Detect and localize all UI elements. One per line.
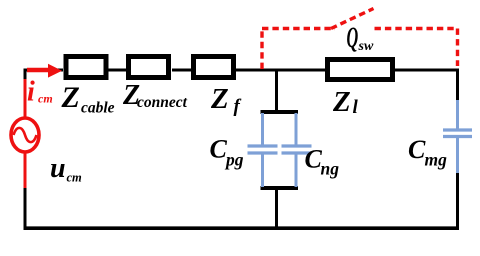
label Z_l xyxy=(332,86,359,118)
svg-text:u: u xyxy=(50,153,66,184)
svg-text:Z: Z xyxy=(332,86,351,118)
wire: capacitor bottom bar xyxy=(261,186,299,190)
svg-text:Q: Q xyxy=(347,22,359,54)
switch Q_sw dashed red: left vertical drop to node xyxy=(260,29,263,70)
resistor box Z_cable xyxy=(66,57,106,78)
capacitor C_ng plates xyxy=(282,146,312,153)
capacitor C_ng lead bottom xyxy=(295,155,298,188)
wire: right vertical black bottom segment xyxy=(456,172,459,230)
svg-text:i: i xyxy=(27,77,35,108)
label i_cm xyxy=(27,77,53,108)
switch dashed red: right vertical drop xyxy=(456,29,459,67)
svg-text:C: C xyxy=(408,135,426,164)
svg-text:mg: mg xyxy=(425,150,448,170)
label u_cm xyxy=(50,153,82,185)
svg-text:cm: cm xyxy=(38,92,53,106)
svg-text:ng: ng xyxy=(321,159,340,179)
label C_pg xyxy=(210,135,244,170)
capacitor C_pg plates xyxy=(248,146,278,153)
wire: right vertical black top segment xyxy=(456,69,459,102)
wire: top-left horizontal from source corner to Z_cable xyxy=(24,69,64,72)
current arrow i_cm xyxy=(27,64,62,78)
wire: left vertical black to bottom corner xyxy=(24,188,27,230)
capacitor C_mg plates xyxy=(443,130,472,137)
svg-text:connect: connect xyxy=(137,94,188,111)
svg-text:Z: Z xyxy=(210,83,229,115)
wire: capacitor top bar xyxy=(261,110,299,114)
svg-text:l: l xyxy=(353,97,359,118)
switch dashed red: top left horizontal xyxy=(262,27,335,30)
AC source sine wave xyxy=(14,128,37,142)
wire: vertical from bottom bar to bottom wire xyxy=(275,188,278,229)
wire: between Z_cable and Z_connect xyxy=(108,69,128,72)
svg-text:cm: cm xyxy=(67,171,83,185)
switch dashed red: open blade diagonal xyxy=(331,9,374,29)
capacitor C_pg lead bottom xyxy=(261,155,264,188)
wire: Z_l to right corner xyxy=(394,69,459,72)
wire: left vertical black top stub xyxy=(24,69,27,81)
label Z_connect xyxy=(122,80,188,111)
wire: left vertical red upper segment xyxy=(24,79,27,119)
svg-text:sw: sw xyxy=(358,39,374,54)
svg-text:pg: pg xyxy=(224,150,244,170)
label C_mg xyxy=(408,135,447,170)
label Z_f xyxy=(210,83,242,117)
capacitor C_ng lead top xyxy=(295,113,298,145)
AC source u_cm circle xyxy=(11,118,39,152)
switch dashed red: top right horizontal xyxy=(375,27,458,30)
capacitor C_mg lead top xyxy=(456,100,459,129)
capacitor C_pg lead top xyxy=(261,113,264,145)
label Z_cable xyxy=(61,81,115,117)
label C_ng xyxy=(305,145,340,179)
wire: between Z_connect and Z_f xyxy=(172,69,192,72)
resistor box Z_l xyxy=(328,60,393,80)
wire: bottom horizontal xyxy=(24,226,460,230)
svg-text:f: f xyxy=(234,96,242,117)
resistor box Z_f xyxy=(194,57,234,78)
wire: node vertical from top wire down to capacitor top bar xyxy=(275,70,278,112)
wire: Z_f to Z_l through node xyxy=(236,69,326,72)
resistor box Z_connect xyxy=(129,57,169,78)
svg-text:Z: Z xyxy=(61,81,80,114)
wire: left vertical red lower segment xyxy=(24,152,27,190)
capacitor C_mg lead bottom xyxy=(456,138,459,173)
svg-text:C: C xyxy=(210,135,228,164)
svg-text:cable: cable xyxy=(81,100,115,117)
label Q_sw xyxy=(347,22,374,54)
